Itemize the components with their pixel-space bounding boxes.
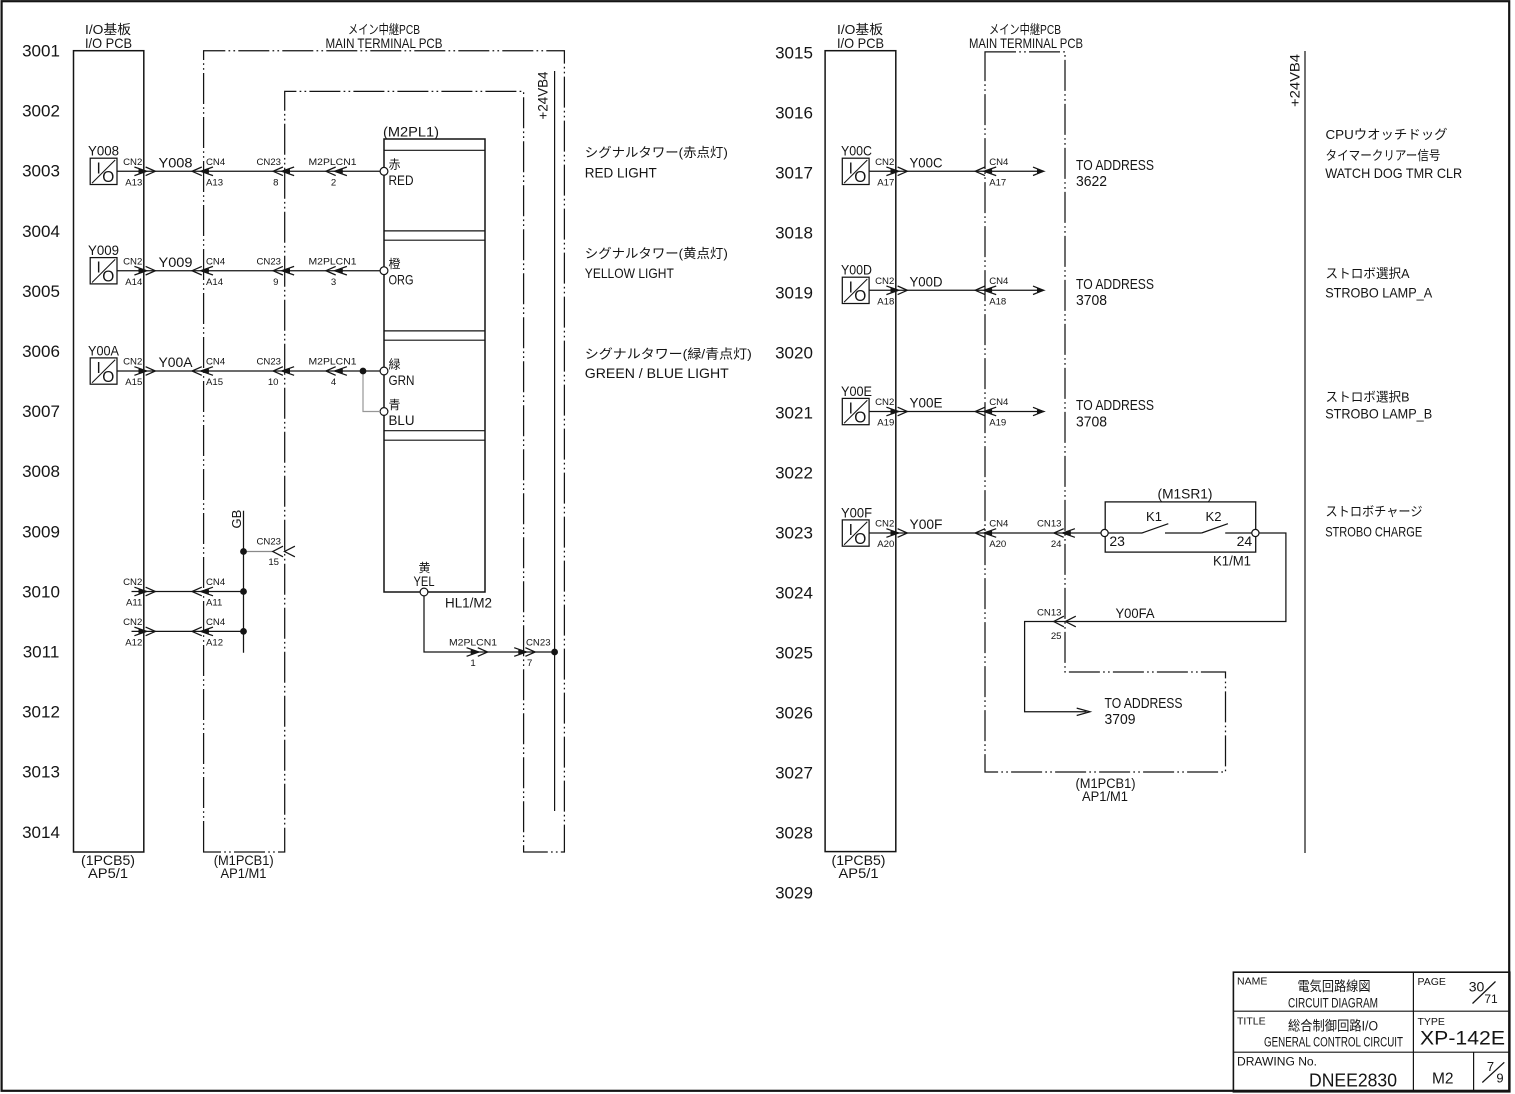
svg-text:2: 2: [331, 178, 336, 189]
svg-text:A14: A14: [125, 277, 143, 288]
svg-text:A17: A17: [989, 178, 1006, 189]
svg-text:CN4: CN4: [989, 519, 1009, 530]
svg-text:HL1/M2: HL1/M2: [445, 594, 492, 610]
svg-text:CN2: CN2: [875, 157, 894, 168]
svg-text:Y008: Y008: [88, 143, 119, 159]
svg-text:TO ADDRESS: TO ADDRESS: [1076, 397, 1154, 414]
svg-text:3: 3: [331, 277, 336, 288]
svg-text:ORG: ORG: [389, 272, 414, 288]
svg-text:3025: 3025: [775, 644, 813, 663]
svg-text:Y00A: Y00A: [159, 354, 194, 370]
svg-text:10: 10: [268, 377, 279, 388]
svg-text:DRAWING No.: DRAWING No.: [1237, 1056, 1317, 1068]
svg-text:8: 8: [273, 178, 278, 189]
svg-text:3023: 3023: [775, 524, 813, 543]
svg-text:TO ADDRESS: TO ADDRESS: [1076, 276, 1154, 293]
svg-text:青: 青: [389, 398, 401, 412]
svg-text:A15: A15: [125, 377, 142, 388]
svg-text:CN2: CN2: [875, 519, 894, 530]
svg-text:CN23: CN23: [256, 357, 281, 368]
svg-text:3021: 3021: [775, 403, 813, 422]
svg-text:3709: 3709: [1105, 711, 1136, 728]
svg-text:CN2: CN2: [123, 157, 142, 168]
svg-text:3010: 3010: [22, 582, 60, 601]
svg-text:総合制御回路I/O: 総合制御回路I/O: [1288, 1018, 1378, 1033]
svg-text:AP1/M1: AP1/M1: [1082, 789, 1128, 804]
svg-text:RED LIGHT: RED LIGHT: [585, 164, 657, 180]
svg-text:3029: 3029: [775, 884, 813, 903]
svg-text:M2PLCN1: M2PLCN1: [449, 638, 497, 649]
svg-text:GENERAL CONTROL CIRCUIT: GENERAL CONTROL CIRCUIT: [1264, 1035, 1403, 1050]
svg-text:ストロボ選択B: ストロボ選択B: [1326, 390, 1410, 405]
svg-text:A20: A20: [989, 539, 1006, 550]
svg-text:DNEE2830: DNEE2830: [1309, 1071, 1397, 1091]
svg-text:3019: 3019: [775, 283, 813, 302]
svg-text:3018: 3018: [775, 223, 813, 242]
svg-text:3003: 3003: [22, 162, 60, 181]
svg-text:24: 24: [1051, 539, 1062, 550]
svg-text:CN4: CN4: [206, 577, 226, 588]
svg-text:GREEN / BLUE LIGHT: GREEN / BLUE LIGHT: [585, 365, 729, 381]
svg-text:M2PLCN1: M2PLCN1: [309, 157, 357, 168]
svg-text:3005: 3005: [22, 282, 60, 301]
svg-text:9: 9: [273, 277, 278, 288]
svg-text:(M1SR1): (M1SR1): [1158, 486, 1213, 502]
svg-text:Y00D: Y00D: [841, 262, 872, 278]
svg-text:CN2: CN2: [875, 397, 894, 408]
svg-text:M2PLCN1: M2PLCN1: [309, 256, 357, 267]
svg-text:4: 4: [331, 377, 337, 388]
svg-text:Y00D: Y00D: [910, 274, 943, 290]
svg-text:9: 9: [1496, 1071, 1503, 1086]
svg-text:+24VB4: +24VB4: [536, 71, 551, 119]
svg-text:30: 30: [1469, 979, 1485, 995]
svg-text:CIRCUIT DIAGRAM: CIRCUIT DIAGRAM: [1288, 995, 1378, 1010]
svg-text:A11: A11: [206, 598, 222, 609]
svg-text:3017: 3017: [775, 163, 813, 182]
svg-text:CN4: CN4: [206, 256, 226, 267]
svg-text:CN4: CN4: [989, 397, 1009, 408]
svg-text:AP5/1: AP5/1: [839, 866, 879, 881]
svg-text:Y00E: Y00E: [910, 395, 943, 411]
svg-text:ストロボ選択A: ストロボ選択A: [1326, 266, 1410, 281]
svg-text:STROBO LAMP_A: STROBO LAMP_A: [1325, 285, 1433, 301]
svg-text:シグナルタワー(黄点灯): シグナルタワー(黄点灯): [585, 246, 728, 261]
svg-text:3708: 3708: [1076, 292, 1107, 309]
svg-text:MAIN TERMINAL PCB: MAIN TERMINAL PCB: [326, 35, 443, 51]
svg-text:Y00C: Y00C: [841, 143, 872, 159]
svg-text:Y008: Y008: [159, 155, 193, 171]
svg-text:CN13: CN13: [1037, 519, 1062, 530]
svg-text:CN2: CN2: [123, 357, 142, 368]
svg-text:3001: 3001: [22, 42, 60, 61]
svg-text:Y009: Y009: [159, 254, 193, 270]
svg-text:1: 1: [470, 658, 475, 669]
svg-text:A13: A13: [206, 178, 223, 189]
svg-text:Y00A: Y00A: [88, 342, 120, 358]
svg-text:CN2: CN2: [123, 256, 142, 267]
svg-text:3015: 3015: [775, 43, 813, 62]
svg-text:3013: 3013: [22, 763, 60, 782]
svg-text:MAIN TERMINAL PCB: MAIN TERMINAL PCB: [969, 35, 1083, 51]
svg-text:3020: 3020: [775, 343, 813, 362]
svg-text:25: 25: [1051, 631, 1062, 642]
svg-text:K1/M1: K1/M1: [1213, 554, 1251, 569]
svg-text:CN23: CN23: [256, 537, 281, 548]
svg-text:3012: 3012: [22, 703, 60, 722]
svg-text:A18: A18: [877, 297, 894, 308]
svg-text:3026: 3026: [775, 704, 813, 723]
svg-text:3622: 3622: [1076, 173, 1107, 190]
svg-text:CN4: CN4: [206, 617, 226, 628]
svg-text:CN4: CN4: [989, 157, 1009, 168]
svg-text:A19: A19: [877, 418, 894, 429]
svg-text:3028: 3028: [775, 824, 813, 843]
svg-text:A12: A12: [206, 638, 223, 649]
svg-text:RED: RED: [389, 172, 414, 188]
svg-text:CN13: CN13: [1037, 607, 1062, 618]
svg-text:3027: 3027: [775, 764, 813, 783]
svg-text:CN2: CN2: [123, 617, 142, 628]
svg-text:3006: 3006: [22, 342, 60, 361]
svg-text:NAME: NAME: [1237, 975, 1267, 987]
svg-text:A17: A17: [877, 178, 894, 189]
svg-text:3002: 3002: [22, 102, 60, 121]
svg-text:A12: A12: [125, 638, 142, 649]
svg-text:A11: A11: [126, 598, 142, 609]
svg-text:3008: 3008: [22, 462, 60, 481]
svg-text:CN2: CN2: [875, 276, 894, 287]
svg-text:STROBO CHARGE: STROBO CHARGE: [1325, 524, 1422, 540]
svg-text:YELLOW LIGHT: YELLOW LIGHT: [585, 265, 674, 281]
svg-text:M2: M2: [1432, 1071, 1454, 1088]
svg-text:GRN: GRN: [389, 372, 415, 388]
svg-text:3022: 3022: [775, 464, 813, 483]
svg-text:3004: 3004: [22, 222, 60, 241]
svg-text:A19: A19: [989, 418, 1006, 429]
svg-text:Y00FA: Y00FA: [1116, 605, 1156, 621]
svg-text:Y00C: Y00C: [910, 155, 943, 171]
svg-text:K2: K2: [1206, 509, 1222, 524]
svg-text:CN23: CN23: [526, 638, 551, 649]
svg-text:K1: K1: [1146, 509, 1162, 524]
svg-text:シグナルタワー(緑/青点灯): シグナルタワー(緑/青点灯): [585, 347, 752, 362]
svg-text:A20: A20: [877, 539, 894, 550]
svg-text:A18: A18: [989, 297, 1006, 308]
svg-text:CN23: CN23: [256, 256, 281, 267]
svg-text:3011: 3011: [23, 643, 60, 662]
svg-text:PAGE: PAGE: [1418, 976, 1446, 988]
svg-text:Y00F: Y00F: [841, 504, 872, 520]
svg-text:A14: A14: [206, 277, 224, 288]
svg-text:YEL: YEL: [414, 573, 435, 589]
svg-text:CN4: CN4: [206, 157, 226, 168]
svg-text:3708: 3708: [1076, 413, 1107, 430]
svg-text:3014: 3014: [22, 823, 60, 842]
svg-text:M2PLCN1: M2PLCN1: [309, 357, 357, 368]
svg-text:XP-142E: XP-142E: [1420, 1028, 1505, 1050]
svg-text:24: 24: [1237, 533, 1253, 549]
svg-text:AP1/M1: AP1/M1: [221, 866, 267, 881]
svg-text:シグナルタワー(赤点灯): シグナルタワー(赤点灯): [585, 145, 728, 160]
svg-text:赤: 赤: [389, 158, 401, 172]
svg-text:緑: 緑: [389, 356, 401, 371]
svg-text:+24VB4: +24VB4: [1288, 53, 1303, 107]
svg-text:CN4: CN4: [989, 276, 1009, 287]
svg-text:15: 15: [268, 557, 279, 568]
svg-text:7: 7: [1487, 1059, 1494, 1074]
svg-text:I/O PCB: I/O PCB: [85, 35, 132, 51]
svg-text:TO ADDRESS: TO ADDRESS: [1076, 157, 1154, 174]
svg-text:CN4: CN4: [206, 357, 226, 368]
svg-text:電気回路線図: 電気回路線図: [1298, 979, 1371, 994]
svg-text:CPUウオッチドッグ: CPUウオッチドッグ: [1326, 127, 1448, 142]
svg-text:BLU: BLU: [389, 412, 415, 428]
svg-text:23: 23: [1109, 533, 1125, 549]
svg-text:Y00E: Y00E: [841, 383, 872, 399]
svg-text:STROBO LAMP_B: STROBO LAMP_B: [1325, 406, 1432, 422]
svg-text:WATCH DOG TMR CLR: WATCH DOG TMR CLR: [1325, 165, 1462, 181]
svg-text:ストロボチャージ: ストロボチャージ: [1326, 504, 1423, 519]
svg-text:A13: A13: [125, 178, 142, 189]
svg-text:GB: GB: [229, 510, 244, 529]
svg-text:(M2PL1): (M2PL1): [383, 123, 439, 139]
svg-text:CN23: CN23: [256, 157, 281, 168]
svg-text:3009: 3009: [22, 522, 60, 541]
svg-text:3024: 3024: [775, 584, 813, 603]
svg-text:Y009: Y009: [88, 242, 119, 258]
svg-text:7: 7: [527, 658, 532, 669]
svg-text:タイマークリアー信号: タイマークリアー信号: [1326, 148, 1441, 163]
svg-text:TYPE: TYPE: [1418, 1016, 1445, 1028]
svg-text:TO ADDRESS: TO ADDRESS: [1105, 695, 1183, 712]
svg-text:A15: A15: [206, 377, 223, 388]
svg-text:CN2: CN2: [123, 577, 142, 588]
svg-text:71: 71: [1484, 992, 1498, 1006]
svg-text:Y00F: Y00F: [910, 516, 943, 532]
svg-text:橙: 橙: [389, 256, 401, 271]
svg-text:I/O PCB: I/O PCB: [837, 35, 884, 51]
svg-text:TITLE: TITLE: [1237, 1015, 1266, 1027]
svg-text:AP5/1: AP5/1: [88, 866, 128, 881]
svg-text:3007: 3007: [22, 402, 60, 421]
svg-text:3016: 3016: [775, 103, 813, 122]
